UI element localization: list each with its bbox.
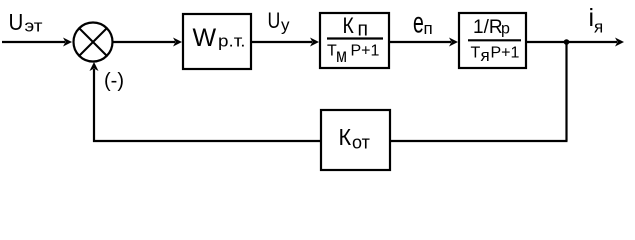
svg-text:п: п <box>358 19 369 41</box>
block Wrt (current regulator) <box>183 14 251 69</box>
wire feedback bottom right to Kot <box>390 140 568 142</box>
svg-text:U: U <box>9 9 24 35</box>
block Kp/(TmP+1) converter <box>320 13 389 68</box>
wire output from 1/Rp to right edge <box>526 38 624 47</box>
svg-text:эт: эт <box>25 17 43 36</box>
svg-text:U: U <box>268 8 281 33</box>
node ep label <box>413 7 433 40</box>
wire feedback vertical up into summer <box>90 62 99 142</box>
wire Kp block to 1/Rp block <box>389 38 458 47</box>
svg-text:от: от <box>352 133 370 153</box>
wire feedback bottom left from Kot <box>93 140 321 142</box>
wire feedback vertical right <box>565 42 567 141</box>
svg-text:м: м <box>336 46 347 67</box>
node iya output label <box>589 4 604 37</box>
svg-text:1/R: 1/R <box>473 17 503 38</box>
junction dot on output line <box>564 39 570 45</box>
wire summer to Wrt block <box>113 38 182 47</box>
summing junction <box>74 23 113 62</box>
wire Wrt to Kp block <box>251 38 319 47</box>
node Uy label <box>268 8 291 35</box>
svg-text:e: e <box>413 7 424 40</box>
svg-text:Т: Т <box>471 45 481 62</box>
svg-text:W: W <box>193 24 217 52</box>
svg-text:(-): (-) <box>104 70 124 92</box>
block Kot (current feedback) <box>321 110 390 170</box>
svg-text:Р+1: Р+1 <box>351 43 380 60</box>
svg-text:р.т.: р.т. <box>218 32 246 51</box>
node Uzt label <box>9 9 43 36</box>
block 1/Rp/(TyaP+1) motor armature <box>459 13 526 68</box>
svg-text:п: п <box>424 19 433 38</box>
svg-text:К: К <box>343 13 354 38</box>
svg-text:я: я <box>594 18 603 37</box>
svg-text:К: К <box>339 124 352 150</box>
wire input arrow into summer <box>2 38 72 47</box>
svg-text:я: я <box>481 46 490 65</box>
svg-text:у: у <box>281 16 290 35</box>
svg-text:р: р <box>501 21 510 38</box>
svg-text:Р+1: Р+1 <box>491 45 520 62</box>
